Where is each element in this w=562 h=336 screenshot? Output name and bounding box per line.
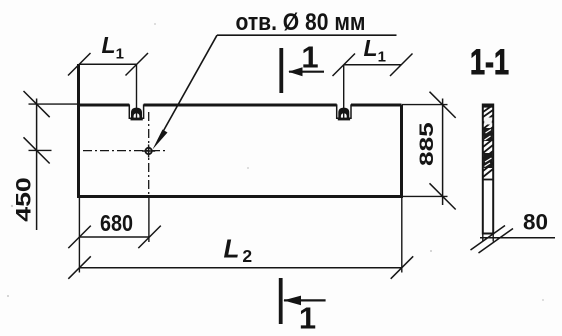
centerline vertical through hole — [148, 112, 150, 196]
loop recess left — [129, 104, 143, 118]
svg-text:отв. Ø 80 мм: отв. Ø 80 мм — [236, 9, 366, 36]
hole — [145, 148, 151, 154]
svg-text:885: 885 — [417, 122, 438, 166]
section view slab — [483, 105, 493, 234]
panel outline — [79, 64, 402, 197]
dimension L2 — [78, 197, 80, 273]
svg-text:680: 680 — [100, 210, 133, 236]
dimension 450 — [29, 103, 79, 105]
svg-text:450: 450 — [13, 177, 36, 222]
loop recess right — [337, 104, 351, 118]
svg-text:1: 1 — [299, 301, 316, 336]
lifting loop left — [131, 108, 142, 119]
dimension 680 — [79, 236, 149, 238]
centerline horizontal through hole — [83, 150, 167, 152]
lifting loop right — [338, 108, 349, 119]
section mark top — [279, 48, 283, 93]
dimension 80 — [480, 237, 555, 239]
svg-text:1: 1 — [301, 40, 318, 75]
section mark bottom — [279, 278, 283, 324]
hole centerline extension below panel — [148, 197, 150, 243]
dimension 885 — [402, 104, 448, 106]
dimension L1 left — [79, 63, 137, 65]
leader line to hole — [158, 35, 217, 140]
svg-text:80: 80 — [523, 210, 548, 235]
slab hatching — [483, 105, 493, 177]
dimension L1 right — [344, 64, 402, 66]
leader arrowhead — [153, 130, 168, 150]
svg-text:1-1: 1-1 — [470, 42, 509, 82]
